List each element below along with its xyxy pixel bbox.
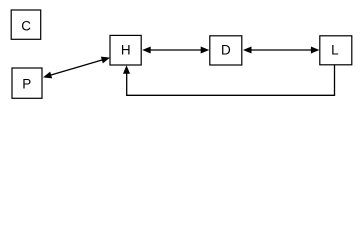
wire H-D bidirectional arrow	[142, 47, 209, 54]
wire P-H bidirectional arrow	[43, 57, 110, 79]
node P box	[12, 68, 42, 98]
svg-text:L: L	[331, 43, 339, 58]
svg-text:H: H	[121, 43, 131, 58]
wire D-L bidirectional arrow	[243, 47, 319, 54]
node C box	[11, 10, 41, 39]
node H box	[110, 35, 141, 65]
svg-text:C: C	[21, 19, 31, 34]
wire L feedback to H (down, left, up)	[123, 65, 335, 96]
svg-text:D: D	[221, 43, 231, 58]
node D box	[210, 36, 242, 65]
node L box	[320, 36, 352, 65]
svg-text:P: P	[22, 76, 31, 91]
